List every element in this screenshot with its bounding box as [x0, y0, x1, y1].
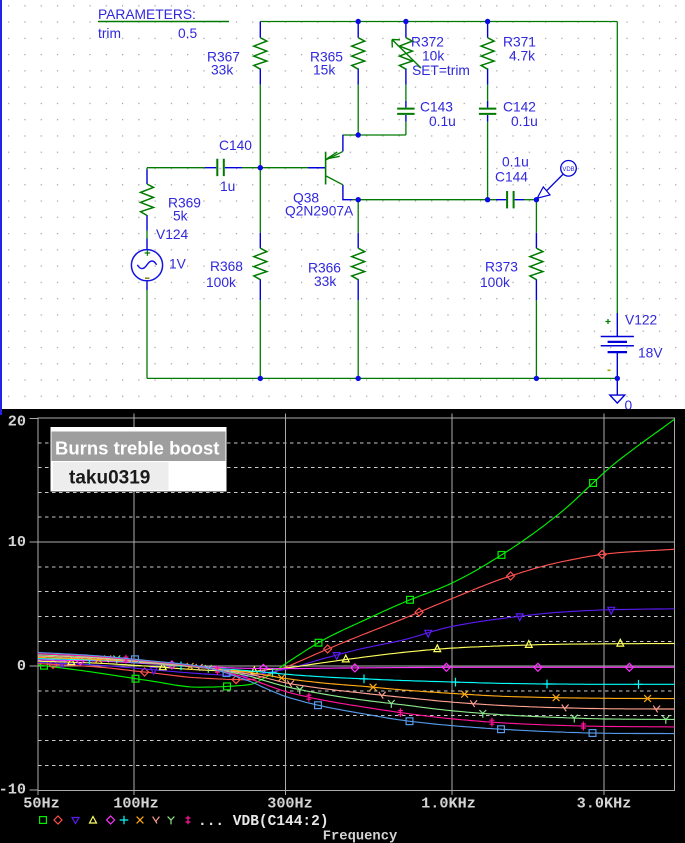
wire R365 to emitter node — [357, 85, 359, 135]
trace 8 salmon VDB(C144:2) — [38, 656, 674, 709]
vdb probe marker — [537, 161, 576, 199]
title box Burns treble boost — [51, 427, 227, 492]
capacitor C142 — [479, 101, 496, 122]
svg-text:R373: R373 — [485, 260, 518, 275]
resistor R366 — [352, 233, 365, 301]
svg-text:Burns treble boost: Burns treble boost — [55, 438, 219, 459]
svg-text:10k: 10k — [422, 49, 444, 64]
wire R366 to bottom rail — [357, 300, 359, 378]
resistor R368 — [254, 233, 267, 301]
trace 2 red VDB(C144:2) — [38, 549, 674, 680]
wire collector row to R366 and C144 — [353, 200, 496, 233]
svg-text:Q2N2907A: Q2N2907A — [285, 204, 354, 219]
wire emitter node row — [343, 134, 406, 136]
wire R368 to bottom rail — [259, 300, 261, 378]
resistor R369 — [141, 170, 154, 231]
wire left column — [146, 168, 148, 379]
trace 10 dpink markers — [123, 655, 586, 731]
svg-text:VDB: VDB — [562, 167, 574, 173]
svg-text:C140: C140 — [219, 138, 252, 153]
capacitor C140 — [205, 159, 242, 176]
trace 7 orange markers — [95, 656, 651, 702]
axis tick stubs — [30, 414, 604, 795]
svg-text:-10: -10 — [0, 780, 26, 798]
svg-text:SET=trim: SET=trim — [412, 63, 470, 78]
resistor R367 — [254, 22, 267, 85]
trace 6 cyan markers — [85, 655, 643, 688]
trace 2 red markers — [49, 550, 606, 683]
wire C143 bottom to node row — [405, 122, 407, 135]
wire right drop to V122 — [616, 22, 618, 314]
axis labels — [0, 412, 631, 812]
junction dots — [258, 19, 620, 381]
trace 9 ltgreen markers — [113, 656, 669, 724]
trace 9 ltgreen VDB(C144:2) — [38, 655, 674, 720]
svg-text:100k: 100k — [480, 275, 510, 290]
svg-text:1V: 1V — [169, 257, 187, 272]
resistor R365 — [352, 22, 365, 85]
svg-text:18V: 18V — [638, 346, 663, 361]
trace 11 blue markers — [132, 656, 596, 736]
PARAMETERS underline — [98, 21, 229, 23]
svg-text:15k: 15k — [313, 63, 335, 78]
svg-text:C143: C143 — [420, 100, 453, 115]
svg-text:Frequency: Frequency — [323, 830, 398, 843]
legend row — [40, 816, 191, 825]
svg-text:PARAMETERS:: PARAMETERS: — [98, 7, 196, 22]
svg-text:taku0319: taku0319 — [69, 468, 150, 489]
wire input row — [147, 167, 308, 169]
svg-text:1u: 1u — [220, 179, 235, 194]
svg-text:100Hz: 100Hz — [113, 795, 159, 813]
resistor R371 — [481, 22, 494, 85]
svg-text:0: 0 — [17, 657, 26, 675]
wire bottom rail — [147, 377, 617, 379]
capacitor C143 — [397, 101, 414, 122]
svg-text:0.5: 0.5 — [178, 26, 198, 41]
trace 4 yellow VDB(C144:2) — [38, 644, 674, 672]
ground symbol 0 — [610, 378, 625, 403]
resistor R373 — [530, 233, 543, 301]
trace 10 dpink VDB(C144:2) — [38, 654, 674, 727]
svg-text:C144: C144 — [495, 170, 528, 185]
svg-text:V122: V122 — [625, 312, 657, 327]
svg-text:R368: R368 — [210, 259, 243, 274]
svg-text:C142: C142 — [503, 100, 536, 115]
svg-text:300Hz: 300Hz — [267, 795, 313, 813]
wire top rail — [260, 21, 617, 23]
svg-text:50Hz: 50Hz — [23, 795, 59, 813]
trace 7 orange VDB(C144:2) — [38, 657, 674, 698]
trace 1 green VDB(C144:2) — [38, 419, 674, 687]
wire R371 to C142 — [487, 85, 489, 101]
svg-text:V124: V124 — [156, 227, 189, 242]
trace 4 yellow markers — [68, 639, 624, 674]
source V122 battery — [601, 313, 634, 378]
plot frame — [38, 418, 674, 790]
svg-text:trim: trim — [98, 26, 121, 41]
trace 5 magenta VDB(C144:2) — [38, 660, 674, 669]
capacitor C144 — [496, 191, 524, 208]
svg-text:3.0KHz: 3.0KHz — [577, 795, 632, 813]
wire C144 right to R373 node — [524, 199, 536, 201]
transistor Q38 — [308, 135, 353, 200]
trace 5 magenta markers — [76, 657, 633, 673]
wire R372 to C143 — [405, 85, 407, 101]
svg-text:33k: 33k — [314, 274, 336, 289]
wire R373 column — [535, 200, 537, 379]
solid major gridlines — [38, 418, 674, 790]
probe plot background — [0, 409, 685, 843]
svg-text:... VDB(C144:2): ... VDB(C144:2) — [198, 814, 329, 830]
svg-text:R372: R372 — [411, 35, 444, 50]
trace 11 blue VDB(C144:2) — [38, 653, 674, 734]
svg-text:0.1u: 0.1u — [429, 114, 456, 129]
source V124 sine — [131, 239, 162, 291]
trace 3 violet VDB(C144:2) — [38, 609, 674, 676]
svg-text:4.7k: 4.7k — [509, 49, 535, 64]
legend trace name — [198, 814, 329, 830]
svg-text:0.1u: 0.1u — [511, 114, 538, 129]
svg-text:33k: 33k — [211, 63, 233, 78]
svg-text:R371: R371 — [503, 35, 536, 50]
svg-text:0: 0 — [625, 398, 633, 409]
svg-text:10: 10 — [8, 533, 26, 551]
svg-text:20: 20 — [8, 412, 26, 430]
potentiometer R372 — [392, 22, 421, 85]
svg-text:0.1u: 0.1u — [502, 155, 529, 170]
dashed minor gridlines — [38, 443, 674, 766]
trace 8 salmon markers — [104, 656, 660, 713]
trace 6 cyan VDB(C144:2) — [38, 659, 674, 685]
svg-text:100k: 100k — [206, 275, 236, 290]
svg-text:5k: 5k — [173, 209, 188, 224]
trace 3 violet markers — [59, 607, 615, 680]
wire R367 to C140 junction — [259, 85, 261, 233]
wire C142 to collector row — [487, 122, 489, 200]
trace 1 green markers — [41, 480, 597, 690]
schematic window left border — [0, 0, 2, 415]
svg-text:1.0KHz: 1.0KHz — [421, 795, 476, 813]
